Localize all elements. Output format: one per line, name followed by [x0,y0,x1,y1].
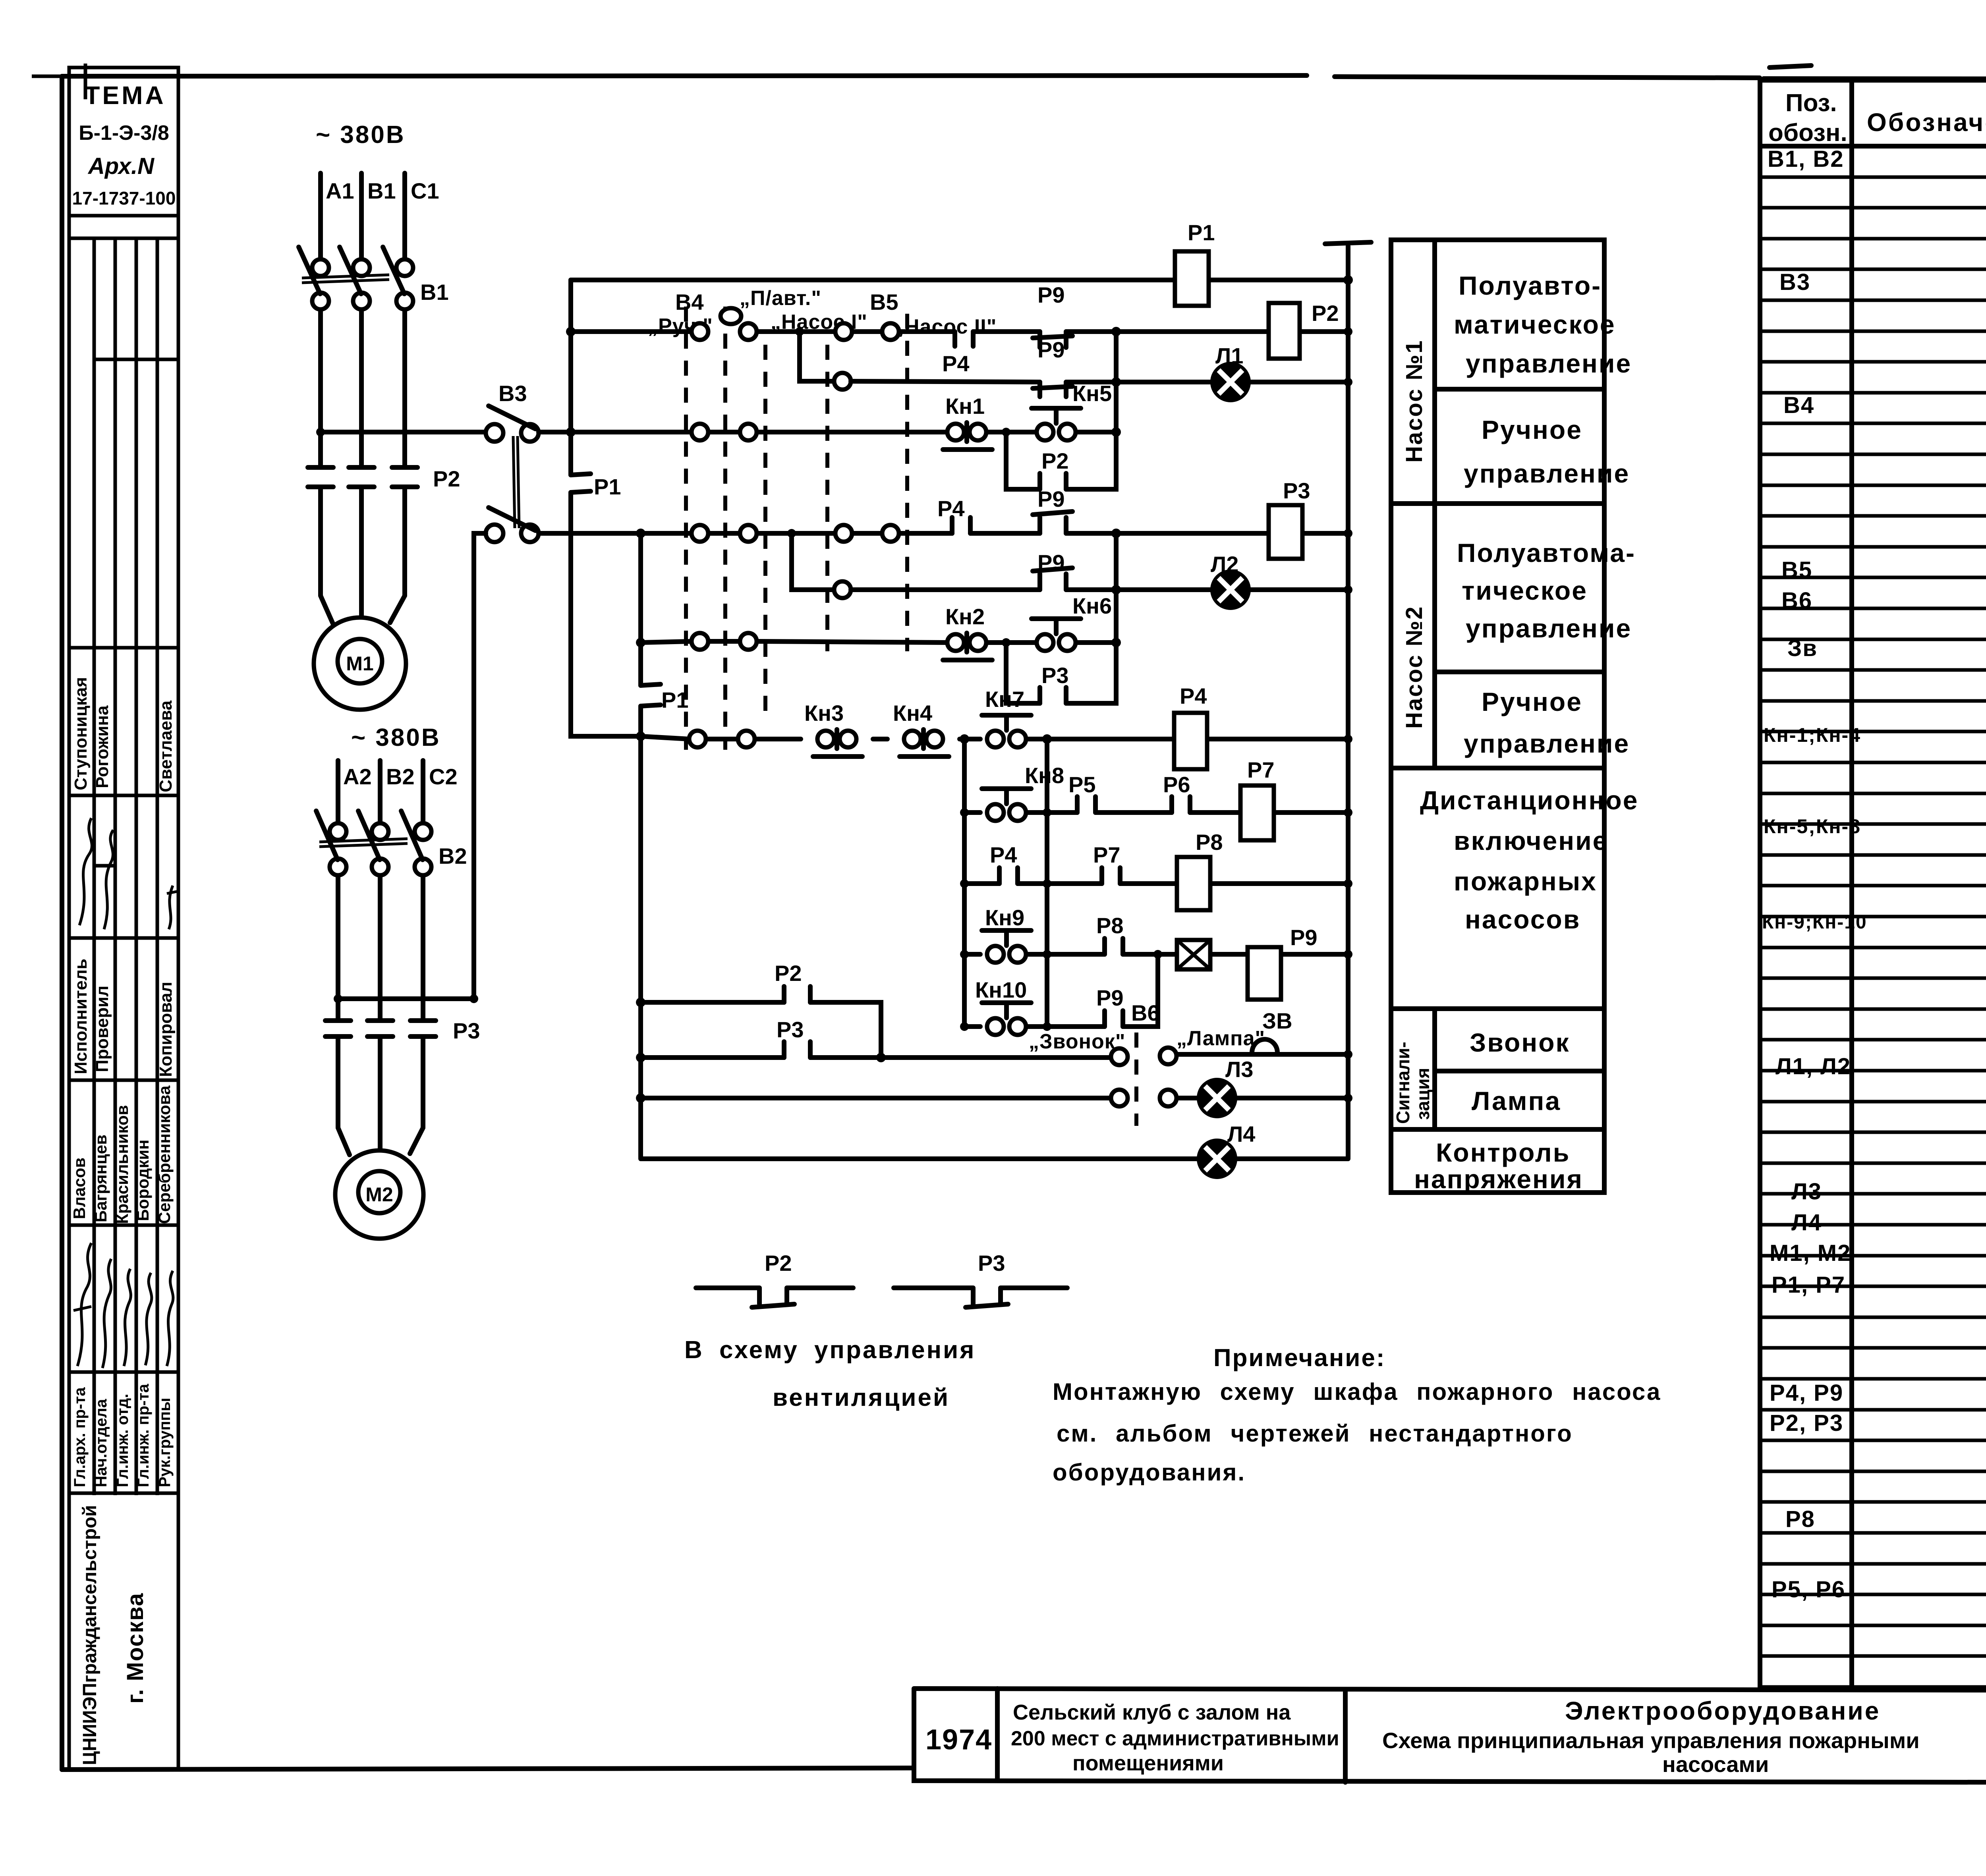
svg-text:Р8: Р8 [1785,1506,1815,1532]
wire row7 selfhold P4 [964,881,1348,886]
junction row1 coil branch [1111,327,1121,336]
svg-text:Л1: Л1 [1215,343,1243,368]
strip names group 1 (rotated) [71,677,176,792]
svg-text:вентиляцией: вентиляцией [773,1384,950,1411]
button Kn7 [987,731,1004,747]
relay coil P7 [1240,786,1274,840]
svg-text:насосами: насосами [1662,1752,1769,1777]
row3 selector circles [692,525,708,542]
svg-text:Р2: Р2 [433,466,460,491]
svg-text:управление: управление [1464,729,1630,758]
row4 selector circles [692,633,708,650]
svg-text:Лампа: Лампа [1472,1086,1561,1116]
strip signatures group 1 [79,818,177,929]
svg-text:Монтажную схему шкафа пожарног: Монтажную схему шкафа пожарного насоса [1053,1378,1661,1405]
wire control bus B vertical [638,533,643,1158]
strip names group 2 (rotated) [70,1085,174,1224]
wire row2 manual nasos1 [539,430,1116,434]
svg-text:включение: включение [1454,826,1608,855]
svg-text:Светлаева: Светлаева [156,701,176,792]
breaker B2 linkage bar [319,839,408,847]
contact P9 row9 [1105,1011,1123,1027]
svg-text:управление: управление [1464,459,1630,488]
relay coil P3 [1269,505,1302,559]
parts table top ticks [1770,62,1986,80]
svg-text:Кн-1;Кн-4: Кн-1;Кн-4 [1764,724,1861,746]
svg-text:Р5, Р6: Р5, Р6 [1772,1577,1845,1602]
svg-text:ЦНИИЭПграждансельстрой: ЦНИИЭПграждансельстрой [79,1505,100,1765]
title block outline [914,1689,1986,1784]
strip roles group 1 (rotated) [71,959,176,1077]
svg-text:Р1: Р1 [1188,220,1215,245]
wire row3b lamp feed [851,587,1348,592]
svg-text:Р2: Р2 [1041,448,1069,473]
svg-text:Р9: Р9 [1037,486,1065,511]
legend outer box [1391,240,1604,1193]
legend vertical divider signal [1432,1009,1437,1129]
contact P6 [1172,797,1190,813]
svg-text:Кн3: Кн3 [804,701,844,726]
svg-text:Кн-9;Кн-10: Кн-9;Кн-10 [1762,912,1867,933]
switch B3 upper pole [486,424,503,442]
parts table row lines [1760,177,1986,1687]
breaker B2 pole contacts [330,823,346,840]
svg-text:Л1, Л2: Л1, Л2 [1775,1054,1851,1079]
wire row8 Kn9 [964,952,1348,957]
svg-text:Сигнали-: Сигнали- [1393,1042,1413,1124]
svg-text:В1, В2: В1, В2 [1768,146,1844,172]
parts table top edge [1760,78,1986,83]
contact P9 NC row1b [1033,382,1072,397]
svg-text:Р4: Р4 [1180,683,1207,708]
svg-text:зация: зация [1412,1068,1433,1120]
wire phase A2 [338,760,350,1155]
wire phase C1 [390,173,405,623]
svg-text:Кн10: Кн10 [975,977,1027,1002]
step contact circle nasos2 [834,581,851,598]
contactor P2 main contacts [308,467,417,487]
svg-text:Р9: Р9 [1037,282,1065,307]
svg-text:Рогожина: Рогожина [93,705,112,788]
relay coil P8 [1177,857,1210,910]
button Kn1 [947,424,964,440]
junction row4 busB [636,638,645,647]
svg-text:Р7: Р7 [1093,842,1121,867]
svg-text:М2: М2 [365,1183,393,1206]
svg-text:управление: управление [1466,614,1632,643]
wire collector left vertical [962,739,967,1027]
table position column entries [1762,146,1867,1602]
svg-text:Р5: Р5 [1068,772,1096,797]
selector dashed line 4 [825,345,829,651]
stamp TEMA box [69,68,178,216]
svg-text:В6: В6 [1781,588,1812,614]
wire row6 Kn8 [964,810,1348,815]
svg-text:Ручное: Ручное [1482,415,1582,444]
svg-text:Багрянцев: Багрянцев [91,1135,110,1222]
junction row4 right [1111,638,1121,647]
svg-text:Р1, Р7: Р1, Р7 [1772,1272,1845,1298]
breaker B1 linkage bar [302,275,389,283]
svg-text:Полуавтома-: Полуавтома- [1457,538,1636,567]
svg-text:Кн9: Кн9 [985,905,1024,930]
svg-text:см. альбом чертежей нестандарт: см. альбом чертежей нестандартного [1057,1420,1573,1447]
svg-text:Р3: Р3 [1283,478,1310,503]
wire step down to lamp row nasos1 [800,332,834,381]
sheet frame top border [62,75,1986,79]
junction bus merge [636,731,645,741]
svg-text:ТЕМА: ТЕМА [84,81,166,110]
strip roles group 2 (rotated) [71,1384,174,1487]
svg-text:Р6: Р6 [1163,772,1190,797]
motor M2 [335,1150,423,1239]
junction bypass left [1002,428,1010,436]
selector dashed line B5 [905,314,909,651]
wire row9 Kn10 [964,954,1158,1027]
svg-text:напряжения: напряжения [1414,1164,1583,1194]
svg-text:матическое: матическое [1454,310,1616,339]
button Kn9 [987,946,1004,963]
svg-text:В3: В3 [1779,269,1810,295]
svg-text:В5: В5 [1781,557,1812,583]
junction row2 right [1111,427,1121,437]
svg-text:Примечание:: Примечание: [1213,1344,1386,1372]
svg-text:Кн2: Кн2 [945,604,985,629]
junction row8 [960,950,969,959]
relay coil P2 [1269,303,1300,359]
contactor P3 main contacts [325,1021,436,1036]
button Kn3 [817,731,834,747]
junction row9 [960,1022,969,1031]
sheet frame bottom border [62,1768,1986,1783]
wire right bus vertical [1346,246,1350,1158]
svg-text:Арх.N: Арх.N [87,153,155,179]
svg-text:Л2: Л2 [1211,552,1238,577]
strip signatures group 2 [73,1243,173,1368]
wire collector right vertical [1045,739,1049,1027]
svg-text:Рук.группы: Рук.группы [156,1398,174,1487]
svg-text:17-1737-100: 17-1737-100 [72,188,176,208]
svg-text:Кн5: Кн5 [1072,381,1112,406]
svg-text:Серебренникова: Серебренникова [155,1085,174,1224]
svg-text:Р2, Р3: Р2, Р3 [1770,1410,1843,1436]
relay coil P1 [1175,251,1209,306]
selector dashed line 3 [763,345,767,715]
svg-text:Зв: Зв [1787,635,1818,661]
wire P2 signal branch row [641,1002,881,1058]
wire B3 lower pole to feeder2 drop [474,533,486,546]
junction feeder2 tie left [334,994,342,1003]
wire control bus A vertical [571,280,641,736]
switch B6 circles lamp row [1111,1090,1128,1106]
left stamp strip columns [69,216,178,1770]
junction row6 [960,808,969,817]
junction tap on A1 [316,428,325,436]
svg-text:„Лампа": „Лампа" [1177,1027,1265,1050]
svg-text:насосов: насосов [1465,905,1580,934]
spare contact P2 for ventilation [696,1288,853,1307]
button Kn2 [947,634,964,651]
svg-text:В схему управления: В схему управления [684,1336,976,1364]
svg-text:М1, М2: М1, М2 [1770,1240,1851,1266]
svg-text:Р8: Р8 [1196,830,1223,855]
svg-text:Гл.арх. пр-та: Гл.арх. пр-та [71,1387,89,1487]
wire phase A1 tap to B3 [321,430,486,434]
motor M1 [314,618,406,710]
svg-text:В4: В4 [675,290,704,315]
button Kn4 [904,731,921,747]
lamp L2 [1212,571,1249,608]
relay coil P4 [1174,713,1207,769]
contact P2 signal [784,986,810,1002]
svg-text:А2: А2 [343,764,372,789]
svg-text:Р3: Р3 [453,1018,480,1043]
selector dashed line P/avt [723,307,727,750]
frame tick top-left [32,64,85,99]
legend divider poluavt/ruchnoe n2 [1435,670,1604,674]
step contact circle nasos1 [834,373,851,390]
button Kn8 [987,804,1004,821]
switch B6 dashed link [1134,1033,1138,1126]
svg-text:Р2: Р2 [1312,301,1339,326]
svg-text:Схема принципиальная управлени: Схема принципиальная управления пожарным… [1382,1728,1920,1753]
contact P5 [1077,797,1095,813]
contact P3 signal [784,1042,810,1058]
svg-text:Р2: Р2 [775,961,802,986]
contact P1 on bus A [571,474,591,492]
parts table outer verticals [1760,80,1986,1687]
contact P1 on bus B [641,684,661,706]
wire phase B2 [378,760,383,1149]
svg-text:Р9: Р9 [1037,337,1065,362]
svg-text:Л4: Л4 [1227,1121,1255,1146]
svg-text:Кн8: Кн8 [1025,763,1064,788]
svg-text:пожарных: пожарных [1454,867,1597,896]
junction P2 branch [636,998,645,1007]
switch B3 lower pole [486,525,503,542]
svg-text:Власов: Власов [70,1158,89,1219]
svg-text:Бородкин: Бородкин [133,1140,152,1221]
wire phase B1 [359,173,364,617]
wire lamp3 row [641,1096,1348,1100]
junction row1 left [566,327,576,336]
svg-text:Ступоницкая: Ступоницкая [71,677,91,790]
row1 selector contact circles [692,323,708,340]
wire top bus [571,278,1348,282]
button Kn6 [1037,634,1053,651]
svg-text:В1: В1 [420,280,449,305]
svg-text:Р1: Р1 [594,474,621,499]
junction bell row mid [876,1053,886,1062]
svg-text:Кн1: Кн1 [945,394,985,419]
svg-text:Полуавто-: Полуавто- [1459,271,1602,300]
selector position circle mark [721,308,741,324]
row5 selector circles [689,731,706,747]
svg-text:~ 380В: ~ 380В [316,121,406,149]
svg-text:Р3: Р3 [978,1251,1005,1276]
svg-text:Насос №2: Насос №2 [1401,606,1427,729]
svg-text:В2: В2 [386,764,415,789]
breaker B1 pole contacts [312,259,329,276]
wire phase A1 [321,173,333,623]
wire bypass P2 loop [1006,332,1116,489]
wire bypass P3 loop [1006,533,1116,703]
contact P3 bypass [1040,687,1066,703]
junction row3 step [787,529,796,538]
svg-text:Р4, Р9: Р4, Р9 [1770,1380,1843,1406]
contact P9 NC row3 [1033,511,1072,533]
wire row5 remote start [641,736,1348,739]
svg-text:Р2: Р2 [765,1251,792,1276]
svg-text:Звонок: Звонок [1470,1028,1570,1057]
svg-text:Р9: Р9 [1037,550,1065,575]
legend box nasos1 bottom [1391,501,1604,506]
junction feeder2 tie right [469,994,478,1003]
breaker B2 blades [316,811,423,860]
svg-text:г. Москва: г. Москва [122,1592,148,1704]
wire from B3 lower pole down to feeder 2 [471,546,476,999]
legend vertical divider nasos1 [1432,240,1437,504]
sheet frame left border [60,76,64,1770]
svg-text:Нач.отдела: Нач.отдела [93,1399,110,1487]
svg-text:Кн6: Кн6 [1072,593,1112,618]
svg-text:В5: В5 [870,290,898,315]
lamp L3 [1199,1080,1235,1116]
wire feeder2 tie bus [338,996,474,1001]
contact P9 NC row1 [1033,332,1072,347]
contact P4 row3 [952,517,970,533]
svg-text:Исполнитель: Исполнитель [71,959,91,1074]
left stamp strip row dividers [69,359,178,1493]
svg-text:Поз.: Поз. [1785,89,1837,117]
svg-text:Р4: Р4 [990,842,1017,867]
svg-text:Контроль: Контроль [1436,1138,1570,1167]
contact P4 row1 [955,332,973,346]
svg-text:Кн7: Кн7 [985,687,1024,712]
svg-text:В4: В4 [1783,392,1814,418]
junction row5 collectors [960,734,969,744]
right bus top tee [1325,242,1371,244]
svg-text:Л3: Л3 [1791,1179,1822,1204]
junction row2 bus A [566,427,576,437]
parts table header bottom [1760,144,1986,149]
wire bell row [641,1054,1348,1058]
junction row7 [960,879,969,888]
svg-text:200 мест с административными: 200 мест с административными [1011,1727,1339,1750]
svg-text:Р7: Р7 [1247,757,1275,782]
svg-text:Сельский клуб с залом на: Сельский клуб с залом на [1013,1700,1291,1724]
bell Zv [1252,1039,1277,1053]
svg-text:~ 380В: ~ 380В [351,724,441,751]
svg-text:Красильников: Красильников [113,1105,131,1224]
svg-text:тическое: тическое [1462,576,1588,605]
lamp L4 [1199,1141,1235,1177]
wire step down to lamp row nasos2 [792,533,834,590]
junction row1 step [795,327,804,336]
svg-text:Ручное: Ручное [1482,687,1582,716]
row2 selector circles [692,424,708,440]
svg-text:помещениями: помещениями [1072,1751,1224,1775]
svg-text:„Звонок": „Звонок" [1029,1030,1125,1053]
svg-text:„П/авт.": „П/авт." [740,287,821,310]
svg-text:Р4: Р4 [942,351,970,376]
selector dashed line B4 [684,307,688,750]
svg-text:М1: М1 [346,652,373,675]
relay coil P9 [1248,947,1281,1000]
spare contact P3 for ventilation [894,1288,1067,1307]
svg-text:А1: А1 [326,178,354,203]
svg-text:ЗВ: ЗВ [1262,1008,1292,1033]
legend divider zvonok/lampa [1435,1069,1604,1073]
svg-text:В2: В2 [439,843,467,869]
svg-text:„Насос II": „Насос II" [894,315,997,338]
svg-text:Кн-5;Кн-8: Кн-5;Кн-8 [1764,815,1861,838]
svg-text:Копировал: Копировал [156,982,176,1077]
svg-text:Р3: Р3 [1041,663,1069,688]
svg-text:Л3: Л3 [1225,1057,1253,1082]
svg-text:Электрооборудование: Электрооборудование [1565,1697,1880,1725]
contact P4 selfhold [999,868,1018,884]
svg-text:Дистанционное: Дистанционное [1420,786,1638,815]
junction top bus right [1343,275,1353,285]
junction bypass3 left [1002,638,1010,647]
contact P8 row8 [1105,938,1123,954]
wire row1b lamp feed [851,381,1348,382]
svg-text:Р9: Р9 [1096,985,1124,1010]
wire phase C2 [410,760,423,1154]
svg-text:Проверил: Проверил [93,986,112,1072]
svg-text:В3: В3 [498,381,527,406]
legend box nasos2 bottom [1391,766,1604,770]
junction row3 coil branch [1111,529,1121,538]
junction bell row left [636,1053,645,1062]
contact P7 row7 [1102,868,1120,884]
svg-text:Р4: Р4 [937,496,965,521]
button Kn10 [987,1018,1004,1035]
legend divider poluavt/ruchnoe n1 [1435,387,1604,392]
breaker B1 blades [299,247,404,294]
junction row3 busB [636,529,645,538]
legend box lampa bottom [1391,1127,1604,1132]
wire bottom bus [641,1156,1348,1161]
svg-text:Р3: Р3 [777,1017,804,1042]
svg-text:С1: С1 [411,178,439,203]
svg-text:С2: С2 [429,764,458,789]
switch B3 linkage [513,436,519,528]
switch B6 circles bell row [1111,1048,1128,1065]
svg-text:Кн4: Кн4 [893,701,932,726]
contact P2 bypass [1040,473,1066,489]
contact P9 NC row3b [1033,568,1072,590]
legend vertical divider nasos2 [1432,504,1437,768]
legend box distancionnoe bottom [1391,1006,1604,1011]
button Kn5 [1037,424,1053,440]
svg-text:В6: В6 [1131,1000,1160,1025]
wire row1 selector nasos1 [571,329,1348,334]
svg-text:оборудования.: оборудования. [1053,1459,1246,1486]
junction lamp3 row left [636,1093,645,1103]
svg-text:1974: 1974 [925,1724,992,1756]
svg-text:Р8: Р8 [1096,913,1124,938]
svg-text:Б-1-Э-3/8: Б-1-Э-3/8 [79,122,169,145]
svg-text:Л4: Л4 [1791,1210,1822,1235]
svg-text:обозн.: обозн. [1768,119,1847,147]
lamp L1 [1212,364,1249,400]
junction row8 merge [1153,950,1162,959]
svg-text:Р9: Р9 [1290,925,1318,950]
svg-text:управление: управление [1466,349,1632,378]
wire row4 manual nasos2 [641,641,1116,643]
